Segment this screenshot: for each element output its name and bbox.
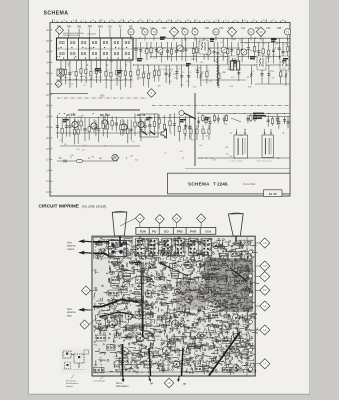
- IF transformer at 199,40: [199, 40, 208, 54]
- svg-text:47k: 47k: [284, 44, 287, 46]
- label vers antenne auto: [67, 308, 92, 318]
- callout node T8: [227, 27, 236, 40]
- svg-text:C4: C4: [263, 241, 267, 245]
- svg-text:EA: EA: [109, 26, 113, 29]
- svg-text:PR3: PR3: [177, 230, 183, 234]
- AF stage labels: [66, 113, 146, 117]
- component type labels: [63, 37, 288, 123]
- svg-text:10n: 10n: [186, 81, 189, 83]
- output stage parts: [184, 125, 210, 140]
- callout node T6: [192, 29, 198, 41]
- transistor Q at 180,48: [177, 45, 183, 51]
- diode D1: [179, 110, 196, 119]
- schematic top ruler: [53, 20, 286, 23]
- callout node T9: [248, 29, 254, 41]
- IF transformer at 229,56: [229, 56, 238, 70]
- heading CIRCUIT IMPRIME: [39, 204, 108, 209]
- svg-text:MC 19: MC 19: [137, 113, 146, 117]
- volume control box: [140, 114, 158, 137]
- svg-text:68k: 68k: [77, 117, 80, 119]
- IF transformer at 257,56: [257, 56, 266, 70]
- wire bottom left: [57, 160, 118, 162]
- callout node T5: [182, 29, 188, 41]
- svg-text:s.t. lin. = tension: s.t. lin. = tension: [229, 160, 243, 163]
- svg-text:(IN): (IN): [100, 94, 104, 98]
- svg-text:PO: PO: [67, 27, 71, 29]
- node A callout: [55, 81, 62, 88]
- svg-text:68k: 68k: [150, 53, 153, 55]
- svg-text:68k: 68k: [169, 81, 172, 83]
- transistor Q8: [121, 120, 127, 134]
- svg-text:D4: D4: [175, 216, 179, 220]
- svg-text:47k: 47k: [163, 48, 166, 50]
- svg-text:R31: R31: [205, 27, 210, 30]
- svg-text:68k: 68k: [248, 87, 251, 89]
- svg-text:DO: DO: [78, 27, 82, 29]
- schematic frame: [50, 23, 290, 197]
- wire top rail: [133, 37, 290, 39]
- wire lower-left rail: [50, 92, 88, 94]
- node S callout: [147, 89, 156, 98]
- svg-text:22k: 22k: [246, 77, 249, 79]
- band switch header: [136, 228, 216, 235]
- svg-text:22k: 22k: [198, 42, 201, 44]
- svg-text:Prise haut-parleur: Prise haut-parleur: [257, 160, 272, 163]
- transistor Q5: [72, 118, 78, 132]
- svg-text:68k: 68k: [158, 86, 161, 88]
- battery hookup inset: [61, 348, 91, 374]
- PCB board outline: [92, 236, 255, 376]
- svg-text:TRI: TRI: [88, 27, 92, 29]
- svg-text:68k: 68k: [267, 57, 270, 59]
- svg-text:auto: auto: [67, 314, 72, 317]
- wire below coil pack: [56, 79, 133, 81]
- board margin lines: [93, 237, 255, 376]
- wire right rail: [240, 42, 290, 44]
- node L6 bottom callout: [164, 378, 174, 388]
- component value labels: [56, 39, 288, 162]
- copper pour region: [176, 258, 253, 312]
- callout node T2: [142, 29, 148, 41]
- node L5 callout: [82, 286, 91, 295]
- schematic left ruler: [46, 29, 52, 194]
- title block: [168, 173, 291, 194]
- node L1 callout: [155, 215, 164, 224]
- node C4 callout: [197, 214, 206, 223]
- wire AF section top: [78, 109, 140, 111]
- PCB pads and traces: [94, 236, 259, 376]
- wire short rail b: [255, 83, 290, 85]
- svg-text:10n: 10n: [220, 55, 223, 57]
- node C4 callout right0: [260, 238, 270, 248]
- svg-text:47k: 47k: [271, 78, 274, 80]
- wire short rail a: [200, 79, 246, 81]
- node L4 callout right4: [260, 301, 270, 311]
- wire second rail: [133, 47, 240, 49]
- svg-text:R55: R55: [277, 27, 282, 30]
- svg-text:C2: C2: [263, 288, 267, 292]
- callout leader lines: [120, 218, 201, 227]
- svg-text:C33: C33: [219, 27, 224, 30]
- junction dots: [57, 38, 289, 159]
- svg-text:22k: 22k: [224, 124, 227, 126]
- svg-text:D1: D1: [129, 30, 133, 34]
- svg-text:47k: 47k: [209, 81, 212, 83]
- tuning note micro text: [63, 33, 96, 36]
- svg-text:GO: GO: [164, 230, 169, 234]
- svg-text:68k: 68k: [64, 118, 67, 120]
- svg-text:vers châssis: vers châssis: [94, 380, 105, 383]
- node C2 callout right3: [260, 285, 270, 295]
- svg-text:OC: OC: [129, 27, 133, 29]
- svg-text:10n: 10n: [250, 50, 253, 52]
- svg-text:47k: 47k: [170, 69, 173, 71]
- svg-text:C52: C52: [266, 27, 271, 30]
- tuner coil-pack S1: [57, 38, 134, 60]
- svg-text:22k: 22k: [70, 84, 73, 86]
- svg-text:C4: C4: [199, 216, 203, 220]
- PCB footprint clusters: [93, 237, 254, 373]
- callout node T1: [128, 29, 134, 41]
- callout node T11: [284, 29, 290, 41]
- wire third rail: [150, 56, 290, 58]
- svg-text:15k: 15k: [130, 156, 133, 158]
- node L4 callout right6: [260, 359, 270, 369]
- transistor Q at 160,50: [157, 47, 163, 53]
- wire output rail 2: [197, 157, 290, 159]
- svg-text:(vu côté circuit).: (vu côté circuit).: [82, 205, 107, 209]
- svg-text:47k: 47k: [193, 87, 196, 89]
- band switch footprints: [136, 239, 212, 256]
- choke L7: [217, 56, 218, 86]
- svg-text:T 2240.: T 2240.: [213, 182, 229, 187]
- svg-text:Fils (noirs): Fils (noirs): [66, 380, 76, 383]
- coil pack pin labels: [57, 26, 133, 38]
- svg-text:68k: 68k: [140, 58, 143, 60]
- svg-text:47k: 47k: [271, 71, 274, 73]
- bottom connections: [121, 376, 180, 382]
- svg-text:C3: C3: [263, 264, 267, 268]
- svg-text:alimentation: alimentation: [116, 385, 129, 388]
- node L2 callout: [135, 214, 144, 223]
- svg-text:47k: 47k: [60, 69, 63, 71]
- svg-text:Vers +: Vers +: [116, 382, 123, 385]
- wire supply rail vertical: [194, 93, 196, 166]
- label vers antenne voiture: [67, 239, 92, 254]
- svg-text:68k: 68k: [138, 78, 141, 80]
- wire AGC dashed line: [57, 97, 148, 99]
- svg-text:68k: 68k: [143, 122, 146, 124]
- svg-text:68k: 68k: [239, 135, 242, 137]
- svg-text:22k: 22k: [195, 53, 198, 55]
- wire output rail 1: [197, 113, 290, 115]
- svg-text:68k: 68k: [225, 147, 228, 149]
- node L1 callout: [56, 26, 64, 34]
- fuse label block: [253, 113, 266, 119]
- svg-text:22k: 22k: [281, 62, 284, 64]
- wire AF rail 2: [56, 132, 160, 134]
- wire fuse to edge: [266, 116, 290, 118]
- capacitor on bottom wire: [64, 159, 83, 162]
- svg-text:47k: 47k: [71, 72, 74, 74]
- bold traces: [93, 236, 247, 376]
- title block code box: [264, 190, 283, 197]
- IF transformer at 280,56: [280, 56, 289, 70]
- resistor group RC (AF section): [56, 113, 290, 144]
- designator labels top: [140, 27, 282, 30]
- svg-text:S: S: [151, 91, 153, 95]
- resistor group RA (below coil pack): [60, 60, 132, 90]
- transformer at 234,135: [234, 129, 248, 158]
- transformer footnotes: [229, 160, 272, 163]
- mounting holes: [249, 250, 253, 371]
- svg-text:batterie: batterie: [66, 385, 74, 388]
- wire mid rail: [133, 64, 290, 66]
- svg-text:RA1: RA1: [98, 26, 103, 29]
- wire AF rail 3: [60, 145, 140, 147]
- svg-text:10n: 10n: [282, 68, 285, 70]
- svg-text:CIRCUIT IMPRIME: CIRCUIT IMPRIME: [39, 204, 79, 209]
- svg-text:10n: 10n: [81, 115, 84, 117]
- svg-text:EL 46: EL 46: [269, 192, 277, 196]
- svg-text:HP: HP: [150, 383, 154, 385]
- node L3 callout right5: [260, 325, 270, 335]
- svg-text:47k: 47k: [231, 77, 234, 79]
- callout node T3: [151, 29, 157, 41]
- dial pointer right: [228, 213, 243, 236]
- svg-text:HP: HP: [183, 384, 187, 386]
- svg-text:10n: 10n: [173, 74, 176, 76]
- svg-text:22k: 22k: [200, 62, 203, 64]
- transformer at 262,135: [262, 129, 274, 158]
- antenna input footprint: [94, 238, 133, 259]
- rectifier block: [231, 61, 240, 70]
- svg-text:15k: 15k: [229, 156, 232, 158]
- svg-text:TON: TON: [139, 230, 145, 234]
- svg-text:68k: 68k: [233, 39, 236, 41]
- svg-text:PAR: PAR: [190, 230, 197, 234]
- svg-text:SCHEMA: SCHEMA: [44, 11, 69, 17]
- svg-text:15k: 15k: [205, 135, 208, 137]
- svg-text:10n: 10n: [104, 145, 107, 147]
- callout node T10: [256, 27, 265, 40]
- antenna input box: [57, 69, 64, 76]
- transistor Q at 244,52: [241, 49, 247, 55]
- svg-text:6 à 12 Volts: 6 à 12 Volts: [243, 183, 256, 186]
- svg-text:47k: 47k: [127, 61, 130, 63]
- capacitor group CB (IF section): [137, 65, 290, 88]
- resistor group RB (RF section): [135, 38, 289, 64]
- node C3 callout right1: [260, 261, 270, 271]
- svg-text:68k: 68k: [174, 78, 177, 80]
- svg-text:22k: 22k: [106, 70, 109, 72]
- transistor Q9: [138, 118, 144, 132]
- svg-text:47k: 47k: [284, 51, 287, 53]
- transistor Q6: [91, 119, 97, 133]
- svg-text:D2: D2: [214, 30, 218, 34]
- callout node T4: [169, 27, 178, 40]
- board tone wash: [93, 237, 255, 376]
- svg-text:68k: 68k: [110, 61, 113, 63]
- node L6 callout: [80, 320, 89, 329]
- svg-text:voiture: voiture: [67, 248, 75, 251]
- wire AF rail 1: [56, 117, 193, 119]
- transistor Q7: [102, 116, 108, 130]
- lamp circle: [112, 154, 118, 160]
- transistor Q at 224,50: [221, 47, 227, 53]
- svg-text:22k: 22k: [114, 156, 117, 158]
- svg-text:47k: 47k: [129, 76, 132, 78]
- callout node T7: [213, 29, 219, 41]
- svg-text:R14: R14: [162, 27, 167, 30]
- wire above title block: [185, 168, 290, 170]
- svg-text:47k: 47k: [193, 55, 196, 57]
- svg-text:Branchement: Branchement: [66, 382, 79, 385]
- svg-text:10n: 10n: [191, 59, 194, 61]
- svg-text:SCHEMA: SCHEMA: [188, 182, 210, 187]
- svg-text:PO: PO: [152, 230, 157, 234]
- svg-text:C1: C1: [263, 274, 267, 278]
- wire antenna to coil: [60, 76, 62, 81]
- svg-text:D1: D1: [249, 30, 253, 34]
- svg-text:15k: 15k: [67, 63, 70, 65]
- svg-text:GUI: GUI: [205, 230, 211, 234]
- node D4 callout: [172, 214, 181, 223]
- svg-text:C41: C41: [241, 27, 246, 30]
- node C1 callout right2: [260, 272, 270, 282]
- speaker LS1: [161, 129, 166, 138]
- transistor Q at 208,52: [205, 49, 211, 55]
- svg-text:D2: D2: [259, 30, 263, 34]
- svg-text:22k: 22k: [90, 78, 93, 80]
- dial pointer left: [112, 211, 127, 236]
